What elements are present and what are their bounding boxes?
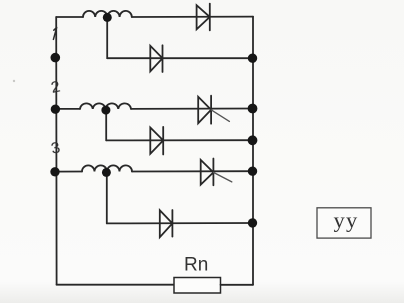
diode VD6 <box>160 210 173 237</box>
node right bus row 4 junction <box>248 135 258 145</box>
node phase 3 terminal dot <box>50 167 59 176</box>
scan noise speck <box>13 80 15 82</box>
wire top row (phase 1) right segment <box>132 16 253 18</box>
inductor L3 <box>82 165 132 171</box>
diode VD4 <box>150 127 163 155</box>
diode VD2 <box>150 45 162 72</box>
wire row 4 horizontal <box>106 139 253 141</box>
svg-text:Rn: Rn <box>184 255 208 276</box>
thyristor VS3 <box>198 96 229 124</box>
wire phase 2 stub from left bus <box>55 108 80 110</box>
wire phase 3 stub from left bus <box>55 171 82 173</box>
thyristor VS5 <box>201 159 232 186</box>
inductor L2 <box>80 103 131 109</box>
wire row 6 horizontal <box>107 222 253 224</box>
control unit box УУ <box>317 208 371 239</box>
node L2 center tap junction <box>101 106 110 115</box>
wire from L1 center tap down <box>106 18 108 59</box>
resistor Rn <box>174 278 221 294</box>
inductor L1 <box>83 11 132 17</box>
node right bus row 2 junction <box>248 54 257 63</box>
node right bus row 3 junction <box>248 104 258 114</box>
node right bus row 6 junction <box>248 218 257 227</box>
wire bottom right segment <box>221 284 254 286</box>
label phase 1 <box>53 27 56 39</box>
svg-text:уу: уу <box>334 208 359 233</box>
node phase 2 terminal dot <box>51 105 60 114</box>
node right bus row 5 junction <box>248 167 257 176</box>
wire row 3 horizontal <box>131 108 253 110</box>
wire row 2 horizontal <box>107 57 253 59</box>
node L3 center tap junction <box>102 168 111 177</box>
wire bottom left segment <box>57 284 174 286</box>
wire from L3 center tap down <box>106 173 108 224</box>
diode VD1 <box>197 4 210 31</box>
wire right bus vertical <box>252 17 254 285</box>
wire from L2 center tap down <box>105 110 107 140</box>
node phase 1 terminal dot <box>51 53 61 63</box>
wire top row (phase 1) left segment <box>56 16 83 18</box>
wire left bus vertical <box>55 17 57 285</box>
wire row 5 horizontal <box>132 170 253 172</box>
node L1 center tap junction <box>103 13 112 22</box>
